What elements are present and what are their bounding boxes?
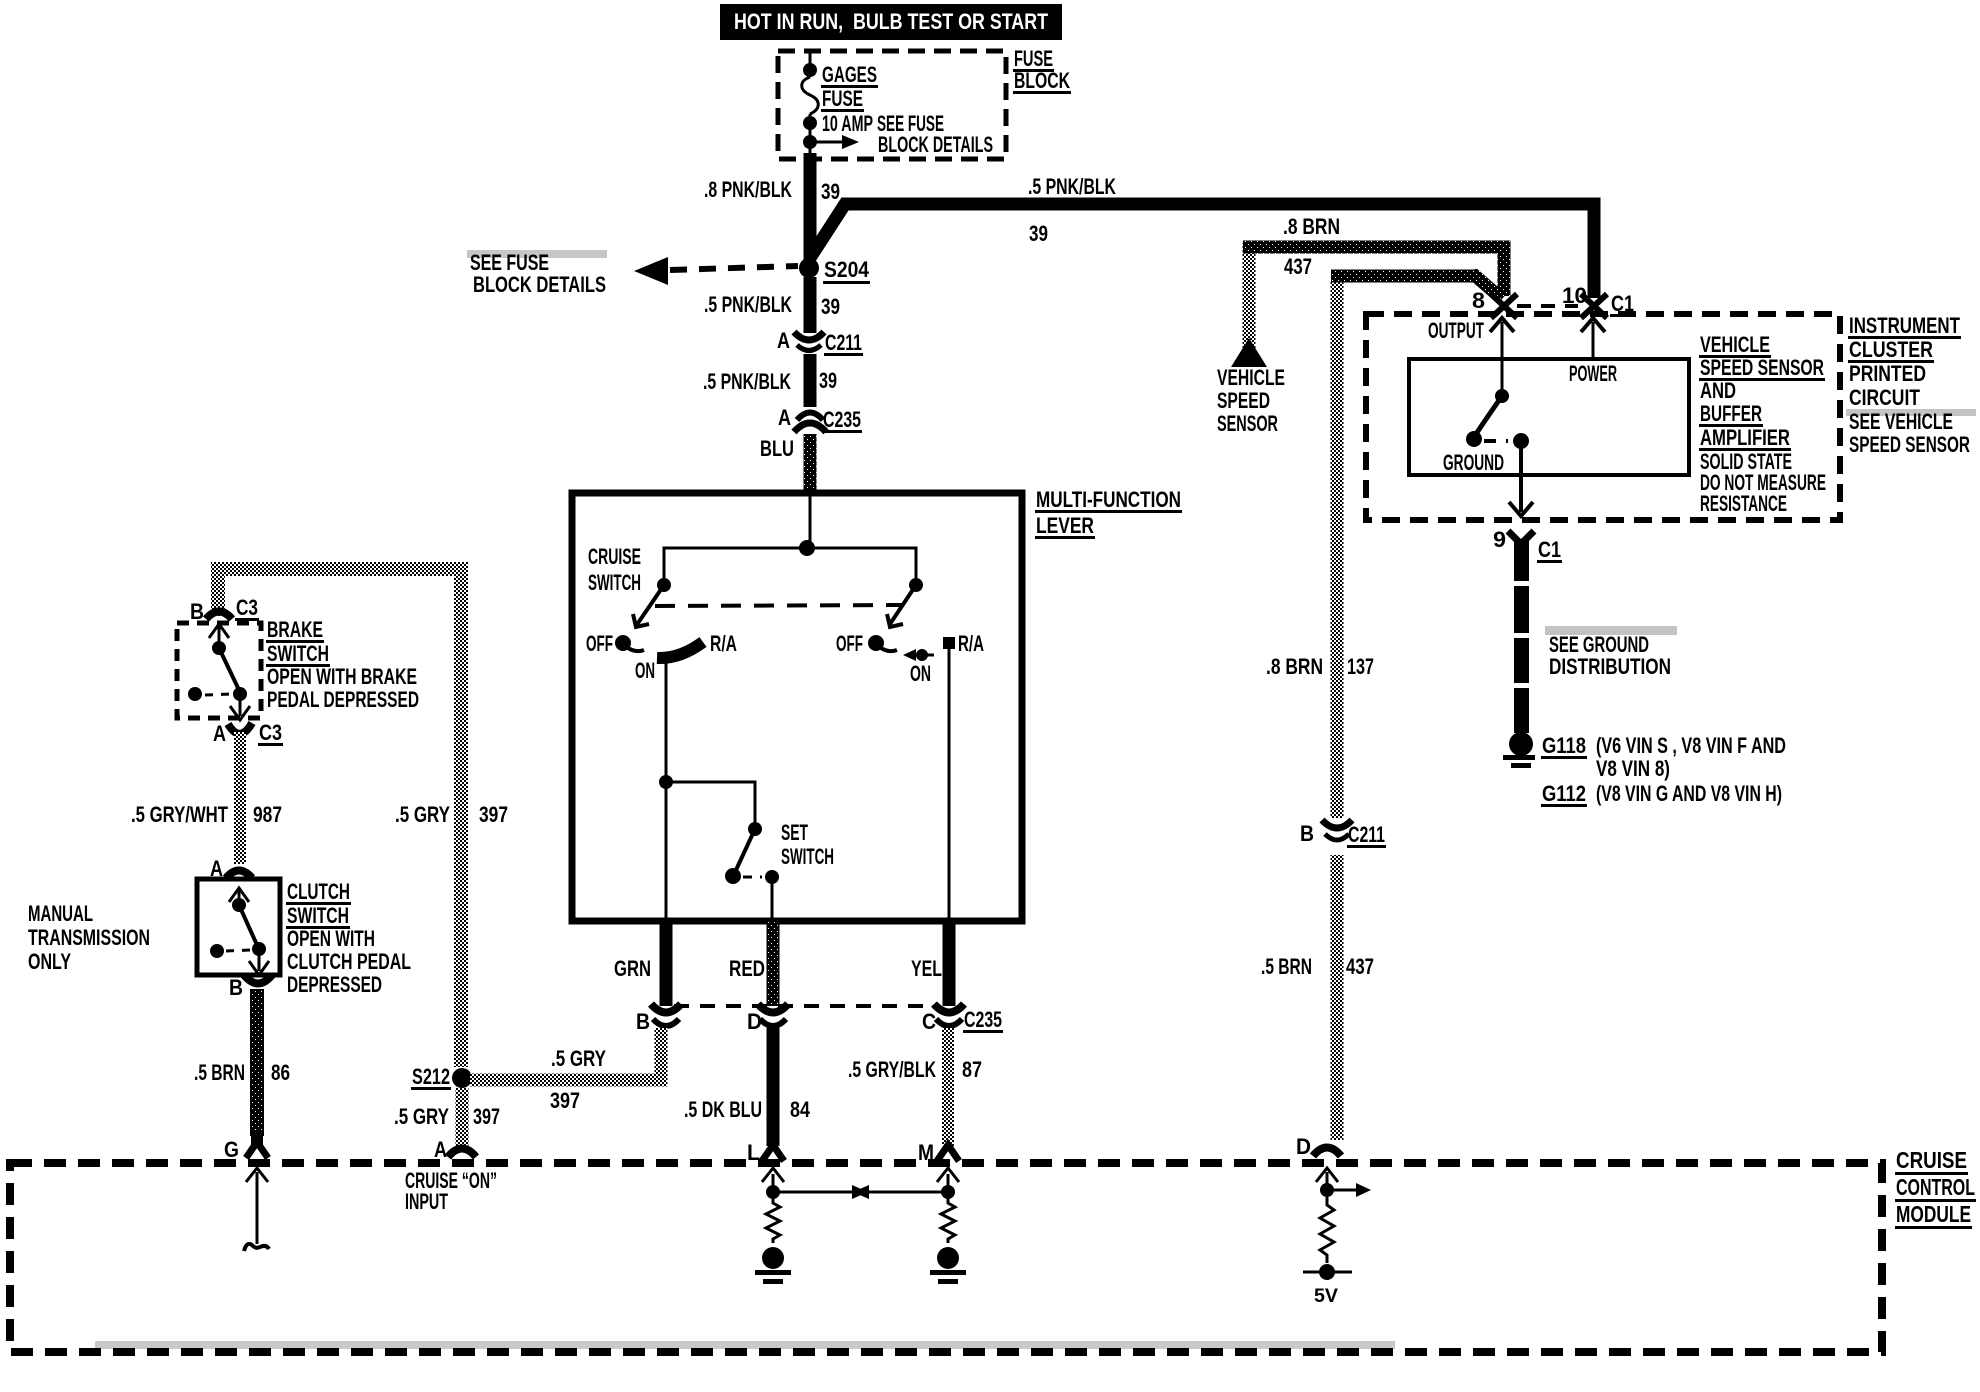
connector C235 pin B: [636, 1004, 681, 1034]
label G118: [1541, 733, 1786, 781]
svg-text:.5 PNK/BLK: .5 PNK/BLK: [704, 292, 792, 317]
wire .5 DK BLU C235 D to module L: [767, 1028, 780, 1146]
svg-text:FUSE: FUSE: [822, 86, 863, 111]
fuse block dashed box: [778, 51, 1006, 159]
svg-text:MANUAL: MANUAL: [28, 901, 93, 926]
svg-text:SWITCH: SWITCH: [287, 903, 349, 928]
svg-text:LEVER: LEVER: [1036, 513, 1094, 538]
module M resistor to ground: [853, 1168, 966, 1284]
svg-text:GROUND: GROUND: [1443, 450, 1504, 475]
svg-text:.5 GRY: .5 GRY: [394, 1104, 449, 1129]
svg-text:L: L: [747, 1140, 760, 1165]
buffer amplifier inner box: [1409, 359, 1689, 475]
connector C1 pin 10: [1562, 283, 1635, 318]
svg-text:B: B: [190, 599, 204, 624]
power arrow into pin 10: [1581, 318, 1605, 359]
svg-text:SENSOR: SENSOR: [1217, 411, 1278, 436]
svg-text:5V: 5V: [1314, 1286, 1338, 1307]
svg-text:CLUTCH PEDAL: CLUTCH PEDAL: [287, 949, 411, 974]
wire 437 diagonal to pin 8: [1472, 273, 1502, 299]
svg-text:OPEN WITH: OPEN WITH: [287, 926, 375, 951]
svg-text:BRAKE: BRAKE: [267, 617, 323, 642]
svg-text:SWITCH: SWITCH: [267, 641, 329, 666]
svg-text:A: A: [213, 721, 226, 746]
svg-text:G112: G112: [1542, 781, 1586, 806]
contact ON arrow (right): [903, 649, 934, 686]
svg-text:M: M: [918, 1140, 934, 1165]
connector C211 pin A: [777, 328, 863, 356]
label CLUTCH SWITCH: [286, 879, 411, 997]
wire .5 GRY S212 to C235 B: [470, 1028, 661, 1080]
note SEE FUSE BLOCK DETAILS (fuse block): [877, 111, 993, 157]
svg-text:INPUT: INPUT: [405, 1189, 448, 1214]
svg-text:G118: G118: [1542, 733, 1586, 758]
note SEE FUSE BLOCK DETAILS (left): [467, 250, 607, 297]
svg-text:B: B: [636, 1009, 650, 1034]
svg-text:C235: C235: [964, 1007, 1002, 1032]
wire .5 GRY/BLK C235 C to module M: [942, 1028, 954, 1146]
dashed link pin 8 to pin 10: [1517, 304, 1578, 308]
wire BLU C235 to lever: [804, 434, 817, 493]
svg-text:SPEED SENSOR: SPEED SENSOR: [1700, 355, 1824, 380]
clutch switch box: [197, 879, 280, 975]
svg-text:.5 DK BLU: .5 DK BLU: [684, 1097, 762, 1122]
svg-text:39: 39: [821, 294, 840, 319]
connector C3 pin B: [190, 595, 259, 624]
svg-text:.5 GRY: .5 GRY: [395, 802, 450, 827]
svg-text:.5 PNK/BLK: .5 PNK/BLK: [703, 369, 791, 394]
svg-text:C211: C211: [825, 330, 862, 355]
label CRUISE SWITCH: [588, 544, 641, 595]
svg-text:HOT IN RUN, BULB TEST OR STAR: HOT IN RUN, BULB TEST OR START: [734, 9, 1048, 34]
svg-text:OFF: OFF: [586, 631, 613, 656]
svg-text:987: 987: [253, 802, 282, 827]
svg-text:GAGES: GAGES: [822, 62, 877, 87]
svg-text:C1: C1: [1538, 537, 1561, 562]
svg-text:BUFFER: BUFFER: [1700, 401, 1762, 426]
label GAGES FUSE: [821, 62, 878, 112]
cruise control module dashed box: [10, 1163, 1882, 1352]
svg-text:D: D: [1296, 1134, 1311, 1159]
svg-text:MODULE: MODULE: [1896, 1201, 1971, 1227]
splice S212: [411, 1064, 472, 1090]
wire to set switch: [666, 782, 755, 826]
svg-text:VEHICLE: VEHICLE: [1700, 332, 1770, 357]
wire YEL: [943, 921, 956, 1006]
splice S204: [799, 257, 870, 284]
svg-text:G: G: [224, 1137, 239, 1162]
wire .5 BRN clutch to module: [250, 989, 264, 1136]
brake switch dashed box: [177, 623, 261, 718]
connector C1 pin 9: [1493, 527, 1562, 563]
connector clutch pin A: [210, 856, 252, 881]
cruise switch left pole: [633, 578, 671, 627]
svg-text:OPEN WITH BRAKE: OPEN WITH BRAKE: [267, 664, 417, 689]
output arrow into pin 8: [1490, 318, 1514, 394]
svg-text:SPEED: SPEED: [1217, 388, 1270, 413]
svg-text:ON: ON: [910, 661, 931, 686]
svg-text:RESISTANCE: RESISTANCE: [1700, 491, 1787, 516]
cruise switch right pole: [887, 578, 923, 627]
svg-text:397: 397: [473, 1104, 500, 1129]
fuse block arrow to see fuse block details: [803, 135, 859, 149]
module pin M: [918, 1140, 959, 1165]
wire 437 branch to cruise module: [1331, 282, 1344, 818]
label CRUISE ON INPUT: [405, 1168, 497, 1214]
svg-text:SWITCH: SWITCH: [588, 570, 641, 595]
connector C235 pin C: [922, 1004, 1003, 1034]
svg-text:BLOCK DETAILS: BLOCK DETAILS: [473, 272, 606, 297]
svg-text:137: 137: [1347, 654, 1374, 679]
contact OFF (left): [586, 631, 644, 656]
svg-text:C3: C3: [236, 595, 258, 620]
svg-text:9: 9: [1493, 527, 1506, 552]
svg-text:A: A: [434, 1137, 447, 1162]
svg-text:INSTRUMENT: INSTRUMENT: [1849, 313, 1960, 338]
svg-text:AMPLIFIER: AMPLIFIER: [1700, 425, 1790, 450]
wire GRN inside lever: [665, 782, 668, 921]
wire .5 GRY S212 to module A: [456, 1088, 469, 1146]
svg-text:MULTI-FUNCTION: MULTI-FUNCTION: [1036, 487, 1181, 512]
label SEE GROUND DISTRIBUTION: [1545, 626, 1677, 679]
svg-text:10 AMP: 10 AMP: [822, 111, 873, 136]
wire cruise switch bus: [664, 548, 916, 581]
connector C3 pin A: [213, 720, 283, 746]
svg-text:A: A: [777, 328, 790, 353]
svg-text:84: 84: [790, 1097, 811, 1122]
connector clutch pin B: [229, 975, 272, 1000]
connector C235 row dashed line: [674, 1004, 938, 1008]
svg-text:.8 BRN: .8 BRN: [1283, 214, 1340, 239]
wire .5 PNK/BLK branch to instrument cluster: [810, 204, 1594, 298]
svg-text:.8 PNK/BLK: .8 PNK/BLK: [704, 177, 792, 202]
wire to ground G118 (dashed thick): [1514, 562, 1529, 733]
svg-text:S204: S204: [824, 257, 870, 282]
svg-text:C211: C211: [1348, 822, 1385, 847]
junction node set branch: [659, 775, 673, 789]
connector C235 pin D: [747, 1004, 788, 1034]
wire RED inside lever: [771, 877, 774, 921]
svg-text:(V6 VIN S , V8 VIN F AND: (V6 VIN S , V8 VIN F AND: [1596, 733, 1786, 758]
svg-text:VEHICLE: VEHICLE: [1217, 365, 1285, 390]
wire .5 GRY loop brake to S212: [218, 569, 461, 1067]
svg-text:CIRCUIT: CIRCUIT: [1849, 385, 1920, 410]
wire .5 GRY/WHT: [234, 732, 246, 864]
svg-text:SPEED SENSOR: SPEED SENSOR: [1849, 432, 1970, 457]
scan artifact band above module bottom edge: [95, 1341, 1395, 1349]
svg-text:B: B: [1300, 821, 1314, 846]
svg-text:CLUTCH: CLUTCH: [287, 879, 350, 904]
svg-text:39: 39: [819, 368, 837, 393]
label MANUAL TRANSMISSION ONLY: [28, 901, 150, 974]
svg-text:(V8 VIN G AND V8 VIN H): (V8 VIN G AND V8 VIN H): [1596, 781, 1782, 806]
svg-text:POWER: POWER: [1569, 361, 1617, 386]
label MULTI-FUNCTION LEVER: [1035, 487, 1182, 539]
svg-text:C: C: [922, 1009, 936, 1034]
wire GRN: [660, 921, 673, 1006]
svg-text:D: D: [747, 1009, 762, 1034]
svg-text:86: 86: [271, 1060, 290, 1085]
svg-text:CRUISE: CRUISE: [1896, 1147, 1967, 1173]
svg-text:CONTROL: CONTROL: [1896, 1174, 1975, 1200]
svg-text:RED: RED: [729, 956, 765, 981]
svg-text:B: B: [229, 975, 243, 1000]
instrument cluster dashed box: [1366, 314, 1840, 520]
svg-text:R/A: R/A: [710, 631, 737, 656]
module pin L: [747, 1140, 784, 1165]
contact R/A (right): [943, 631, 984, 656]
svg-text:.5 PNK/BLK: .5 PNK/BLK: [1028, 174, 1116, 199]
svg-text:8: 8: [1472, 288, 1485, 313]
wire ON to set switch: [665, 657, 668, 782]
svg-text:OUTPUT: OUTPUT: [1428, 318, 1484, 343]
wire .8 BRN 437 speed sensor to C1 pin 8: [1243, 243, 1256, 364]
label INSTRUMENT CLUSTER PRINTED CIRCUIT: [1846, 313, 1976, 457]
svg-text:ONLY: ONLY: [28, 949, 71, 974]
svg-text:S212: S212: [412, 1064, 450, 1089]
svg-text:39: 39: [821, 179, 840, 204]
svg-text:YEL: YEL: [911, 956, 942, 981]
svg-text:GRN: GRN: [614, 956, 651, 981]
svg-text:437: 437: [1346, 954, 1374, 979]
svg-text:437: 437: [1284, 254, 1312, 279]
label BRAKE SWITCH: [266, 617, 419, 712]
multi-function lever box: [572, 493, 1022, 921]
svg-text:.5 BRN: .5 BRN: [1261, 954, 1312, 979]
ground arrow to pin 9: [1509, 441, 1533, 516]
wire RED: [767, 921, 780, 1006]
contact R/A arm (left): [657, 631, 737, 658]
wire into lever box: [809, 493, 812, 548]
svg-text:397: 397: [550, 1088, 580, 1113]
svg-text:397: 397: [479, 802, 508, 827]
svg-text:BLU: BLU: [760, 436, 794, 461]
label VEHICLE SPEED SENSOR: [1217, 365, 1285, 436]
svg-text:R/A: R/A: [958, 631, 984, 656]
svg-text:39: 39: [1029, 221, 1048, 246]
wire .5 PNK/BLK S204 to C211: [804, 277, 817, 333]
svg-text:.5 GRY/BLK: .5 GRY/BLK: [848, 1057, 936, 1082]
clutch switch contacts: [210, 888, 269, 975]
junction node: [799, 540, 815, 556]
svg-text:BLOCK: BLOCK: [1014, 68, 1070, 93]
svg-text:BLOCK DETAILS: BLOCK DETAILS: [878, 132, 993, 157]
ground G118 symbol: [1503, 732, 1535, 768]
svg-text:SET: SET: [781, 820, 808, 845]
svg-text:TRANSMISSION: TRANSMISSION: [28, 925, 150, 950]
vehicle speed sensor symbol: [1231, 338, 1267, 367]
svg-text:DEPRESSED: DEPRESSED: [287, 972, 382, 997]
svg-text:.5 BRN: .5 BRN: [194, 1060, 245, 1085]
svg-text:.5 GRY/WHT: .5 GRY/WHT: [131, 802, 228, 827]
connector C235 pin A: [778, 405, 862, 433]
svg-text:SEE VEHICLE: SEE VEHICLE: [1849, 409, 1953, 434]
contact OFF (right): [836, 631, 897, 656]
svg-text:.5 GRY: .5 GRY: [551, 1046, 606, 1071]
connector C211 pin B: [1300, 820, 1386, 848]
svg-text:V8 VIN 8): V8 VIN 8): [1596, 756, 1670, 781]
label VEHICLE SPEED SENSOR AND BUFFER AMPLIFIER: [1699, 332, 1826, 516]
svg-text:SWITCH: SWITCH: [781, 844, 834, 869]
module pin G: [224, 1132, 268, 1162]
svg-text:87: 87: [962, 1057, 982, 1082]
module D resistor to 5V: [1303, 1168, 1371, 1307]
wire .5 PNK/BLK C211 to C235: [804, 354, 817, 407]
svg-text:DISTRIBUTION: DISTRIBUTION: [1549, 654, 1671, 679]
buffer switch: [1466, 389, 1529, 449]
set switch: [725, 822, 779, 884]
module pin A: [434, 1137, 476, 1162]
svg-text:A: A: [778, 405, 791, 430]
dashed arrow to see fuse block details: [634, 257, 798, 285]
brake switch contacts: [188, 624, 250, 720]
label SET SWITCH: [781, 820, 834, 869]
svg-text:C235: C235: [823, 407, 861, 432]
label CRUISE CONTROL MODULE: [1895, 1147, 1976, 1229]
svg-text:PRINTED: PRINTED: [1849, 361, 1926, 386]
gages fuse: [802, 51, 819, 159]
header HOT IN RUN, BULB TEST OR START: [720, 4, 1062, 40]
svg-text:PEDAL DEPRESSED: PEDAL DEPRESSED: [267, 687, 419, 712]
wire .5 BRN 437 to module D: [1331, 855, 1344, 1140]
svg-text:CRUISE: CRUISE: [588, 544, 641, 569]
module pin D: [1296, 1134, 1341, 1159]
svg-text:ON: ON: [635, 658, 655, 683]
svg-text:.8 BRN: .8 BRN: [1266, 654, 1323, 679]
label G112: [1541, 781, 1782, 807]
module L resistor to ground: [755, 1168, 868, 1284]
svg-text:AND: AND: [1700, 378, 1736, 403]
dashed gang line: [655, 605, 903, 606]
svg-text:C3: C3: [259, 720, 282, 745]
svg-text:OFF: OFF: [836, 631, 863, 656]
wire YEL inside lever: [948, 644, 951, 921]
wire .8 PNK/BLK fuse to S204: [804, 153, 817, 260]
fuse block label: [1013, 46, 1071, 94]
svg-text:CLUSTER: CLUSTER: [1849, 337, 1933, 362]
module input G arrow and coil: [244, 1168, 269, 1251]
connector C1 pin 8: [1472, 288, 1517, 318]
